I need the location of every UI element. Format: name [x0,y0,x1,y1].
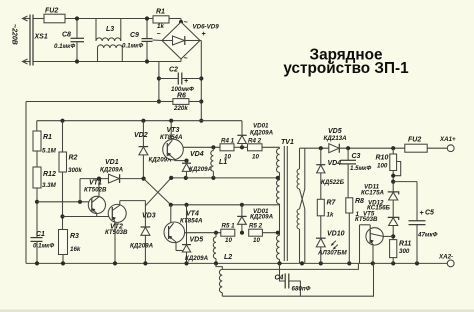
transistor VT2 [108,201,126,264]
connector XS1 arrows and blades [23,15,34,66]
svg-text:1k: 1k [157,23,164,30]
wire to C5 [393,181,417,183]
svg-text:КТ854А: КТ854А [160,134,183,141]
resistor R11 [390,240,397,258]
resistor R1 (5.1M) column [36,121,38,131]
resistor R4.1 [220,144,234,151]
svg-text:КД522Б: КД522Б [321,179,345,186]
fuse FU2 (input) [44,14,65,23]
TV1 primary windings (left) [277,147,280,263]
svg-text:R4 1: R4 1 [221,137,235,144]
svg-text:0.1мкФ: 0.1мкФ [122,43,143,50]
svg-text:КТ503В: КТ503В [105,229,128,236]
svg-text:220k: 220k [173,105,188,112]
zener VD11 [388,192,399,218]
svg-text:КС175А: КС175А [361,189,385,196]
diode VD3 column [141,201,151,264]
transistor VT5 [360,225,394,264]
svg-text:C3: C3 [352,153,361,160]
svg-text:47мкФ: 47мкФ [417,232,438,239]
svg-text:VD6-VD9: VD6-VD9 [193,24,220,31]
capacitor C9 [142,16,153,63]
svg-text:1k: 1k [327,212,334,219]
svg-text:1.5мкФ: 1.5мкФ [350,165,371,172]
svg-text:+: + [202,31,206,38]
resistor R6 [159,99,201,105]
svg-text:VD4: VD4 [328,160,342,167]
svg-text:L3: L3 [106,26,114,33]
capacitor C3 column [341,148,357,198]
title [283,47,409,78]
capacitor C1 [31,238,43,264]
resistor R12 [36,151,38,167]
svg-text:16k: 16k [70,246,81,253]
svg-text:L2: L2 [224,254,232,261]
svg-text:VD10: VD10 [327,231,345,238]
svg-text:VD2: VD2 [134,132,148,139]
resistor R5.2 [249,229,263,236]
diode bridge VD6-VD9 [157,20,206,63]
svg-text:XA1+: XA1+ [439,136,456,143]
svg-text:R5 1: R5 1 [222,223,236,230]
svg-text:XA2-: XA2- [438,254,453,261]
svg-text:C9: C9 [130,32,139,39]
svg-text:100: 100 [377,163,388,170]
wire bottom input rail [33,61,181,63]
svg-text:КД209А: КД209А [189,166,213,173]
resistor R1 (1k) [153,16,169,23]
svg-text:КД209А: КД209А [100,166,124,173]
capacitor C4 [280,263,301,296]
wire VT2 collector to VD3 column [120,200,146,202]
wire VT1 emitter row [63,216,113,218]
svg-text:КД209А: КД209А [250,214,274,221]
svg-text:R6: R6 [177,92,186,99]
fuse FU2 (output) [405,144,427,152]
wire output top [300,147,329,149]
diode VD5 (center) [182,205,191,264]
svg-text:R11: R11 [399,241,411,248]
svg-text:XS1: XS1 [34,34,48,41]
capacitor C8 [71,16,85,63]
diode VD5 КД213А [329,144,339,153]
svg-text:R2: R2 [69,155,78,162]
svg-text:устройство ЗП-1: устройство ЗП-1 [283,60,409,77]
svg-text:R5 2: R5 2 [249,223,263,230]
wire bottom rail [26,262,447,264]
resistor R3 [59,230,68,255]
TV1 secondary windings (right) [297,148,305,263]
svg-text:C4: C4 [275,275,284,282]
diode VD01 (lower) [237,205,246,233]
wire bridge left input [153,39,163,42]
svg-text:C5: C5 [425,210,434,217]
svg-text:КД209А: КД209А [130,243,154,250]
wire below-rail jog to L2 lower [216,263,222,269]
svg-text:R8: R8 [355,198,364,205]
wire [65,18,153,20]
diode VD2 column [139,121,149,181]
wire VT1 base row [37,201,92,203]
svg-text:10: 10 [252,154,259,161]
svg-text:КД209А: КД209А [250,129,274,136]
inductor L2 (upper) [213,233,216,264]
svg-text:C8: C8 [62,32,71,39]
zener VD12 [388,217,399,239]
TV1 core [283,146,285,261]
svg-text:КТ502В: КТ502В [84,186,107,193]
svg-text:КД209А: КД209А [185,255,209,262]
inductor L2 (lower winding) [219,269,222,292]
resistor R5.1 [221,229,235,236]
wire [169,18,181,20]
terminal XA2- [447,260,454,267]
svg-text:FU2: FU2 [45,8,58,15]
wire top rail [33,18,44,20]
svg-text:R1: R1 [156,9,165,16]
svg-text:+: + [420,210,424,217]
capacitor C5 [409,182,426,264]
svg-text:КД213А: КД213А [324,135,348,142]
resistor R4.2 [248,144,263,151]
wire [36,188,38,238]
svg-text:VT1: VT1 [89,179,102,186]
transistor VT3 [163,121,220,161]
svg-text:3.3M: 3.3M [42,182,57,189]
wire left outer vertical [25,102,27,264]
resistor R10 (trimmer) [390,148,401,192]
svg-text:КТ503В: КТ503В [355,216,378,223]
svg-text:R12: R12 [43,171,56,178]
wire bus y177.9 [171,177,279,179]
svg-text:300: 300 [399,248,410,255]
wire bus y204.8 [171,204,280,206]
svg-text:+: + [184,78,188,85]
inductor L1 [211,145,216,178]
svg-text:VD1: VD1 [105,159,119,166]
svg-text:5.1M: 5.1M [42,148,57,155]
svg-text:~: ~ [184,20,188,27]
svg-text:VD4: VD4 [190,151,204,158]
svg-text:10: 10 [225,237,232,244]
junction dots bottom rail [35,261,39,265]
svg-text:КТ854А: КТ854А [180,217,203,224]
wire left rail y101.5 [26,101,159,103]
svg-text:~220В: ~220В [11,24,18,45]
inductor L3 (common-mode choke) [96,19,122,62]
node DC+ vertical [200,40,201,42]
svg-text:TV1: TV1 [281,139,294,146]
svg-text:VD5: VD5 [328,128,342,135]
svg-text:R3: R3 [70,233,79,240]
LED VD10 [316,238,338,263]
wire feedback mid [222,263,358,269]
wire feedback bottom [222,263,373,296]
svg-text:10: 10 [224,154,231,161]
terminal XA1+ [447,145,454,152]
svg-text:0.1мкФ: 0.1мкФ [54,43,75,50]
wire cross-coupling X [144,179,171,205]
svg-text:R1: R1 [43,134,52,141]
svg-text:680пФ: 680пФ [292,286,311,293]
diode VD1 [80,174,144,202]
transistor VT1 [88,179,105,217]
resistor R8 [346,198,353,213]
resistor R7 [317,199,324,216]
svg-text:300k: 300k [68,167,82,174]
transistor VT4 [164,205,221,251]
svg-text:0.1мкФ: 0.1мкФ [33,243,54,250]
svg-text:VD5: VD5 [190,237,204,244]
svg-text:−: − [157,31,161,38]
svg-text:VT3: VT3 [167,127,180,134]
svg-text:VD3: VD3 [142,213,156,220]
diode VD4 (center) [182,159,191,178]
capacitor C2 [159,73,201,85]
svg-text:R4 2: R4 2 [248,137,262,144]
svg-text:FU2: FU2 [408,137,421,144]
resistor R2 column [62,121,64,152]
diode VD4 КД522Б column [316,148,325,199]
svg-text:C1: C1 [36,231,45,238]
svg-text:C2: C2 [169,67,178,74]
svg-text:R10: R10 [376,155,389,162]
svg-text:10: 10 [253,237,260,244]
svg-text:R7: R7 [327,200,337,207]
wire rail y120.7 [37,120,242,122]
svg-text:~: ~ [184,56,188,63]
node DC- vertical [158,62,160,102]
svg-text:АЛ307БМ: АЛ307БМ [317,250,347,257]
diode VD01 (upper) [237,121,246,148]
